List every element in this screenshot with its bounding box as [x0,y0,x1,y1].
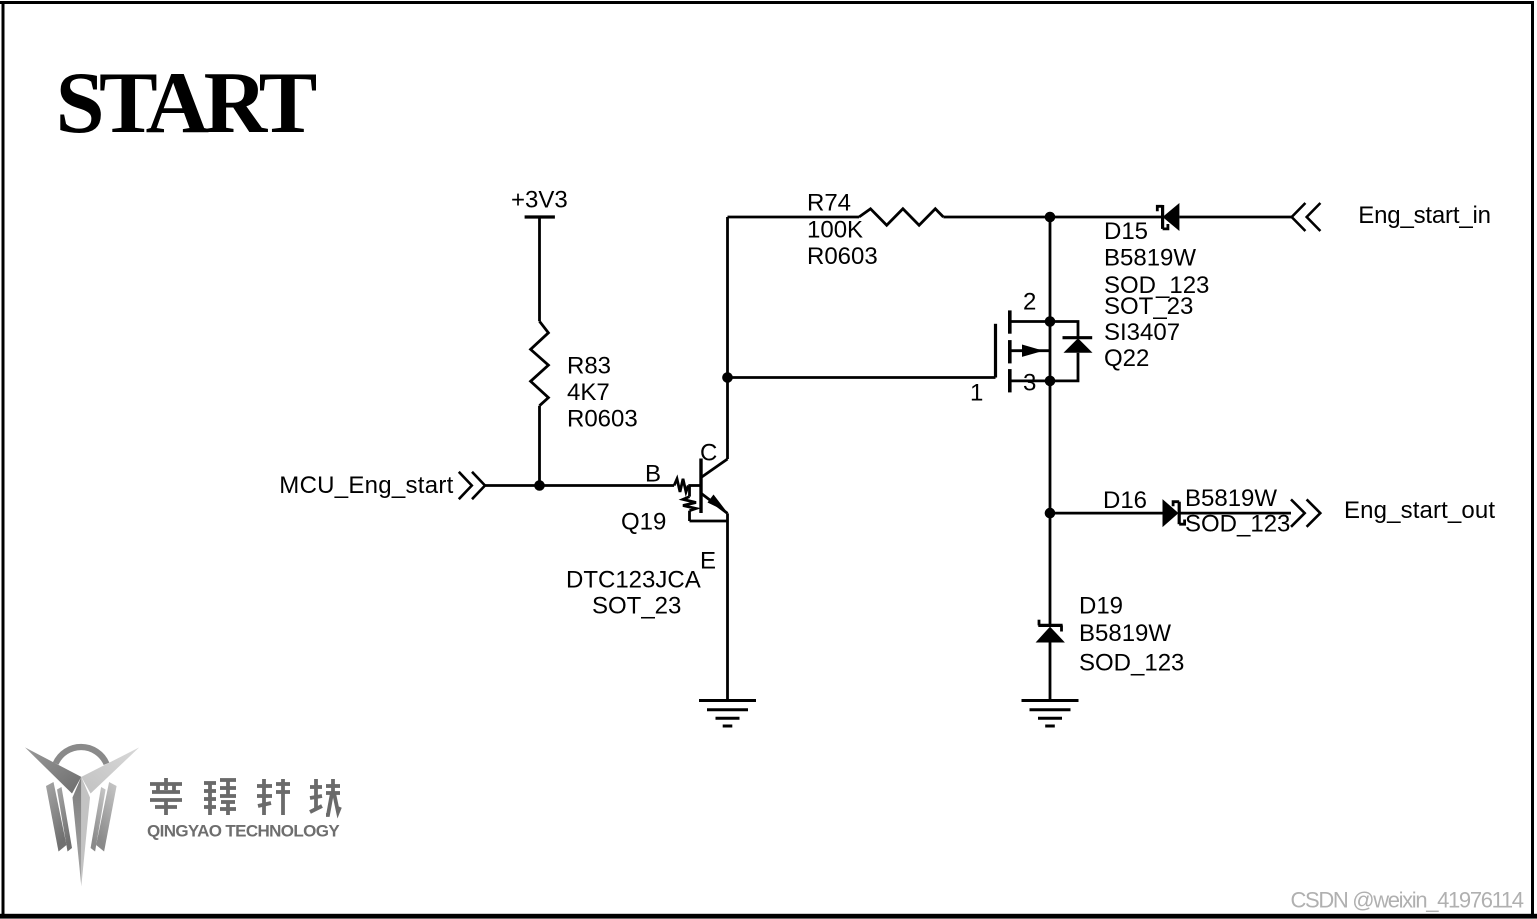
svg-text:R0603: R0603 [567,406,638,433]
diode D16 [1163,499,1185,527]
diode D15 [1157,203,1179,231]
transistor Q19 input resistor [674,479,688,492]
node B junction top rail [1045,212,1056,223]
wire D15 to port [1179,216,1291,219]
resistor R83 [531,321,549,405]
transistor Q19 [701,459,728,514]
svg-text:C: C [700,439,717,466]
svg-text:R83: R83 [567,353,611,380]
label D15 value [1104,218,1209,299]
node C junction [1045,508,1056,519]
wire main vertical rail [1049,217,1052,625]
svg-text:E: E [700,547,716,574]
wire D19 to ground [1049,643,1052,701]
wire top rail left [728,216,860,219]
wire Q19 emitter down [726,513,729,700]
label DTC123JCA SOT_23 [566,567,701,620]
diode D19 [1036,620,1065,643]
svg-text:B5819W: B5819W [1079,620,1171,647]
wire gate [728,376,996,379]
port Eng_start_out [1291,499,1320,526]
wire Q19 collector up [726,217,729,459]
logo chinese wordmark [150,778,340,815]
mosfet Q22 body diode [1050,322,1093,381]
ground right [1022,701,1079,727]
wire port to Q19 base [485,484,674,487]
svg-text:Q19: Q19 [621,509,666,536]
svg-text:D16: D16 [1103,487,1147,514]
node A junction [534,480,545,491]
svg-text:D19: D19 [1079,593,1123,620]
label R74 value [807,190,878,271]
ground left [699,701,756,727]
svg-text:SI3407: SI3407 [1104,319,1180,346]
port MCU_Eng_start [459,472,485,499]
svg-text:QINGYAO TECHNOLOGY: QINGYAO TECHNOLOGY [147,822,340,841]
svg-text:Q22: Q22 [1104,345,1149,372]
port Eng_start_in [1292,203,1321,231]
svg-text:R0603: R0603 [807,243,878,270]
svg-text:MCU_Eng_start: MCU_Eng_start [279,472,453,499]
resistor Q19 base-emitter [683,486,728,522]
node junction Q22 pin2 [1045,316,1056,327]
svg-text:+3V3: +3V3 [511,187,568,214]
wire node C to D16 [1050,512,1163,515]
svg-text:3: 3 [1023,370,1036,397]
svg-text:100K: 100K [807,216,863,243]
label R83 value [567,353,638,433]
svg-text:2: 2 [1023,288,1036,315]
mosfet Q22 [996,310,1051,392]
svg-text:Eng_start_in: Eng_start_in [1358,202,1491,229]
svg-text:SOT_23: SOT_23 [592,593,681,620]
svg-text:START: START [56,55,318,152]
power +3V3 [525,217,555,321]
svg-text:SOD_123: SOD_123 [1104,272,1209,299]
svg-text:CSDN @weixin_41976114: CSDN @weixin_41976114 [1291,888,1525,913]
label Q22 SI3407 SOT_23 [1104,293,1193,372]
node junction Q22 pin3 [1045,376,1056,387]
svg-text:Eng_start_out: Eng_start_out [1344,497,1495,524]
svg-text:B5819W: B5819W [1104,245,1196,272]
svg-text:D15: D15 [1104,218,1148,245]
svg-text:DTC123JCA: DTC123JCA [566,567,701,594]
node junction gate tap [722,372,733,383]
svg-text:4K7: 4K7 [567,379,610,406]
wire R83 to node A [538,406,541,486]
svg-text:1: 1 [970,380,983,407]
svg-text:B: B [645,460,661,487]
wire resistor to base bar [688,484,701,487]
svg-text:B5819W: B5819W [1185,485,1277,512]
resistor R74 [859,209,943,225]
label D19 value [1079,593,1184,677]
svg-text:SOD_123: SOD_123 [1079,650,1184,677]
label D16 value [1103,485,1290,537]
wire D16 to port [1179,512,1291,515]
svg-text:R74: R74 [807,190,851,217]
wire R74 to D15 [943,216,1162,219]
